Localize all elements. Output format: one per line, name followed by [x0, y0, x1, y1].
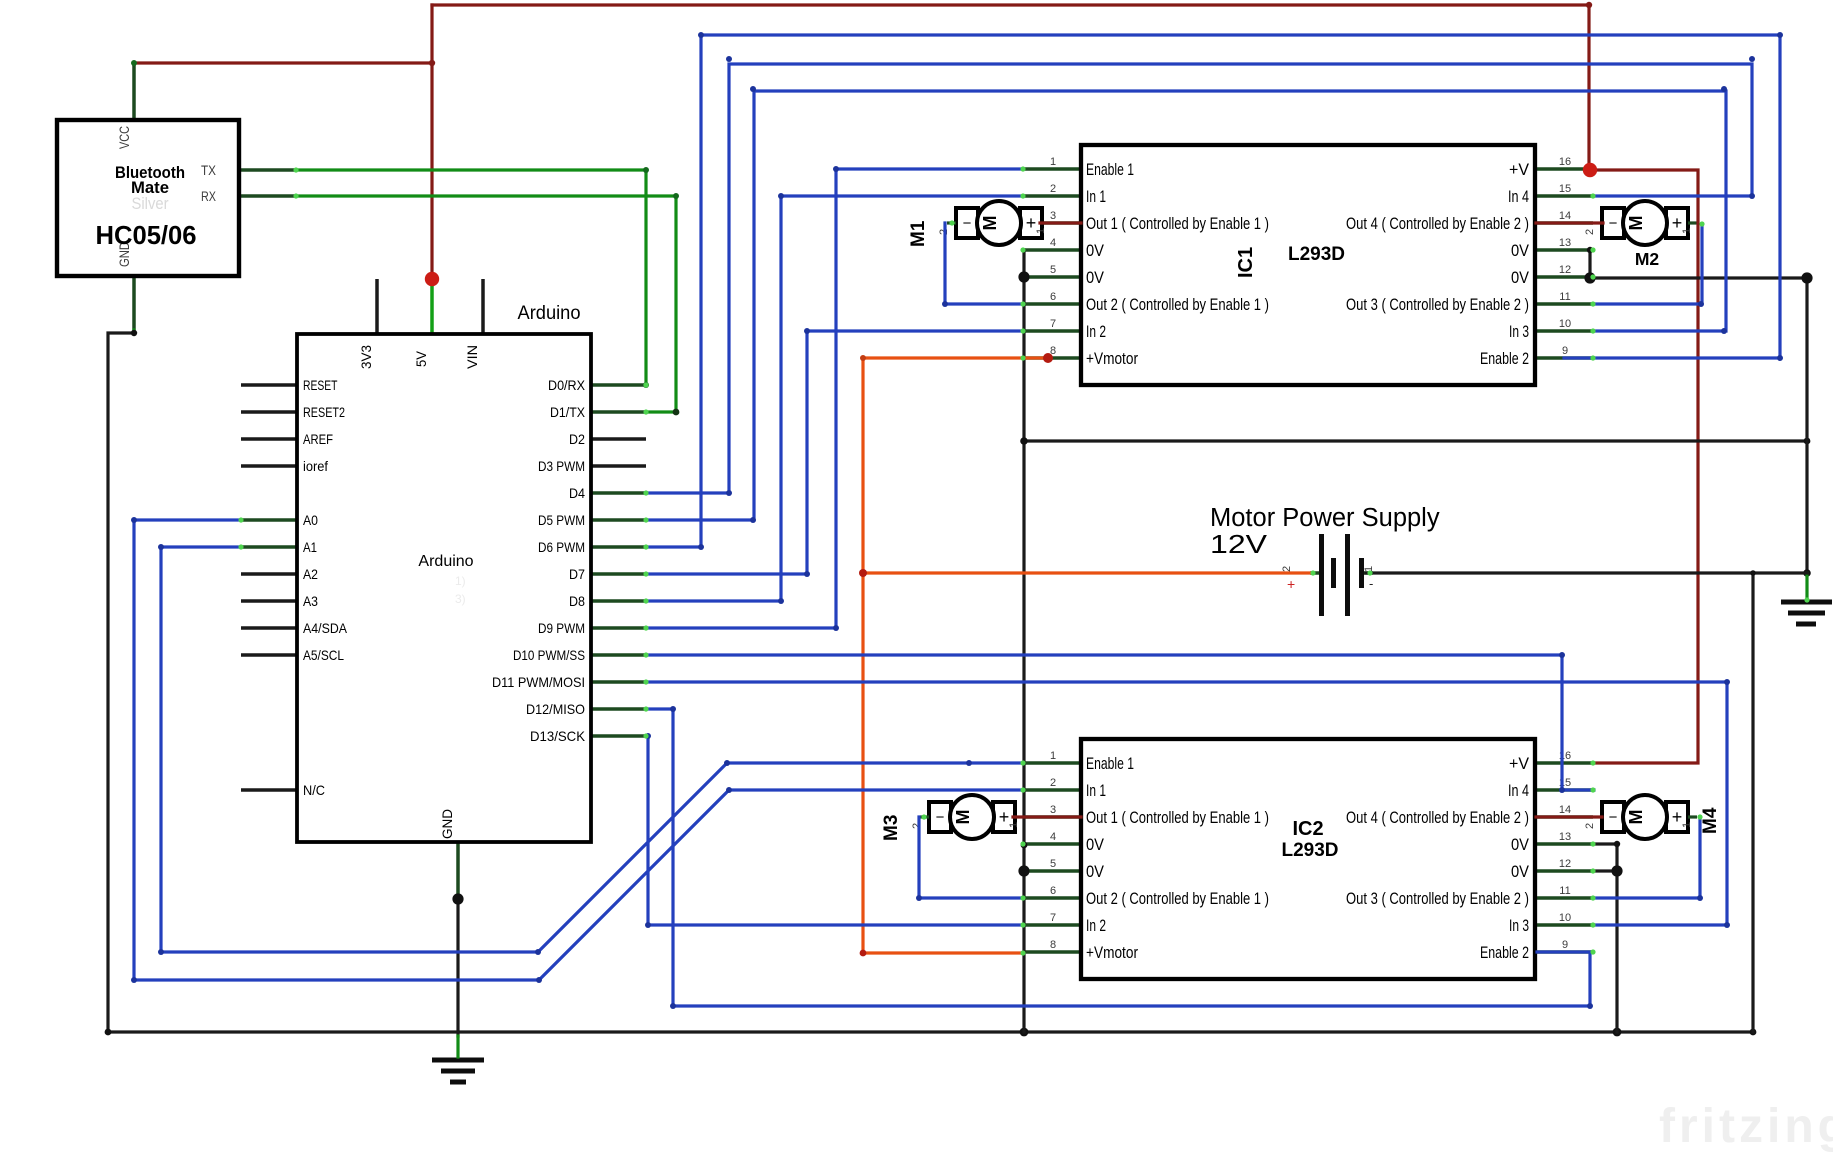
junction blue wire bend (1562,790): [1559, 787, 1565, 793]
svg-text:A3: A3: [303, 594, 318, 609]
node pin connection point (1370,573): [1367, 570, 1372, 575]
svg-text:D13/SCK: D13/SCK: [530, 729, 586, 744]
svg-text:15: 15: [1559, 183, 1571, 195]
junction blue wire bend (1701,304): [1698, 301, 1704, 307]
junction blue wire bend (807,574): [804, 571, 810, 577]
svg-text:M: M: [1626, 216, 1646, 231]
IC1 pin stub 1: [1023, 167, 1081, 171]
svg-text:A2: A2: [303, 567, 318, 582]
Arduino body: [297, 334, 591, 842]
svg-text:0V: 0V: [1511, 862, 1530, 881]
junction blue wire bend (1752,59): [1749, 56, 1755, 62]
node pin connection point (1023,763): [1020, 760, 1025, 765]
svg-text:In 4: In 4: [1508, 781, 1529, 800]
svg-text:In 2: In 2: [1086, 916, 1106, 935]
wire D11 to IC2 In3: [646, 682, 1727, 925]
wire +12V supply: branch to battery plus: [863, 571, 1311, 574]
wire Arduino GND stem: [456, 896, 459, 899]
battery plate long right: [1345, 534, 1350, 616]
junction blue wire bend (727,763): [724, 760, 730, 766]
svg-text:D4: D4: [569, 486, 585, 501]
Arduino pin stub RESET: [241, 383, 297, 387]
node pin connection point (646,547): [643, 544, 648, 549]
junction blue wire bend (781,196): [778, 193, 784, 199]
IC2 pin stub 7: [1023, 923, 1081, 927]
svg-text:+: +: [1287, 576, 1295, 592]
wire D9 to IC1 Enable1: [646, 169, 1023, 628]
junction blue wire bend (781,601): [778, 598, 784, 604]
node pin connection point (1593,196): [1590, 193, 1595, 198]
node pin connection point (646,574): [643, 571, 648, 576]
svg-text:D2: D2: [569, 432, 585, 447]
node pin connection point (1593,250): [1590, 247, 1595, 252]
svg-text:+Vmotor: +Vmotor: [1086, 943, 1138, 962]
svg-text:Out 3 ( Controlled by Enable 2: Out 3 ( Controlled by Enable 2 ): [1346, 295, 1529, 314]
node pin connection point (1593,763): [1590, 760, 1595, 765]
node pin connection point (296,170): [293, 167, 298, 172]
svg-text:−: −: [1609, 215, 1618, 232]
svg-text:10: 10: [1559, 318, 1571, 330]
IC2 pin stub 16: [1535, 761, 1593, 765]
svg-text:In 3: In 3: [1509, 916, 1529, 935]
wire BT RX to Arduino D1/TX (green): [296, 196, 676, 412]
wire bottom ground bus (black): [108, 1030, 1753, 1033]
IC1 body: [1081, 145, 1535, 385]
svg-text:−: −: [1609, 809, 1618, 826]
node pin connection point (1593,331): [1590, 328, 1595, 333]
svg-text:In 1: In 1: [1086, 781, 1106, 800]
svg-text:ioref: ioref: [303, 459, 328, 474]
BT pin stub GND: [132, 277, 136, 332]
svg-text:Out 2 ( Controlled by Enable 1: Out 2 ( Controlled by Enable 1 ): [1086, 889, 1269, 908]
wire battery minus to ground (black): [1366, 571, 1807, 574]
svg-text:3): 3): [455, 592, 466, 606]
svg-text:9: 9: [1562, 345, 1568, 357]
svg-text:Arduino: Arduino: [418, 553, 473, 570]
motor M1: [908, 201, 1047, 247]
node pin connection point (646,709): [643, 706, 648, 711]
IC1 pin stub 14: [1535, 221, 1593, 225]
IC1 pin stub 7: [1023, 329, 1081, 333]
Arduino pin stub D6 PWM: [591, 545, 646, 549]
junction 5V/BT-VCC: [429, 60, 435, 66]
svg-text:+Vmotor: +Vmotor: [1086, 349, 1138, 368]
svg-text:In 2: In 2: [1086, 322, 1106, 341]
junction blue wire bend (753,520): [750, 517, 756, 523]
IC1 L293D motor driver: [1023, 145, 1593, 385]
svg-text:IC1: IC1: [1235, 247, 1257, 278]
svg-text:6: 6: [1050, 291, 1056, 303]
Arduino pin stub A1: [241, 545, 297, 549]
node pin connection point (952,223): [949, 220, 954, 225]
wire 5V net: BT VCC to 5V riser: [134, 61, 432, 64]
svg-text:Motor Power Supply: Motor Power Supply: [1210, 504, 1440, 532]
svg-text:3: 3: [1050, 804, 1056, 816]
svg-text:12: 12: [1559, 264, 1571, 276]
node pin connection point (646,736): [643, 733, 648, 738]
svg-text:M: M: [980, 216, 1000, 231]
node pin connection point (1023,196): [1020, 193, 1025, 198]
BT pin stub RX: [241, 194, 296, 198]
svg-text:+V: +V: [1509, 754, 1530, 773]
svg-text:VIN: VIN: [465, 345, 480, 369]
svg-text:14: 14: [1559, 210, 1571, 222]
svg-text:D10 PWM/SS: D10 PWM/SS: [513, 648, 585, 663]
svg-text:-: -: [1369, 576, 1373, 591]
wire IC2 Out1 to M3 plus (dark red): [1013, 815, 1081, 818]
earth ground symbol under Arduino: [432, 1060, 484, 1082]
node pin connection point (1023,250): [1020, 247, 1025, 252]
svg-text:4: 4: [1050, 237, 1056, 249]
svg-text:AREF: AREF: [303, 432, 333, 447]
junction blue wire bend (538,952): [535, 949, 541, 955]
IC2 pin stub 4: [1023, 842, 1081, 846]
IC2 pin stub 15: [1535, 788, 1593, 792]
wire 5V net: top rail across page to IC1 +V drop: [432, 5, 1589, 170]
wire right earth stub (green): [1805, 573, 1808, 600]
svg-text:11: 11: [1559, 291, 1570, 303]
junction blue wire bend (836,628): [833, 625, 839, 631]
svg-text:Enable 1: Enable 1: [1086, 754, 1134, 773]
junction blue wire bend (673,1006): [670, 1003, 676, 1009]
svg-text:9: 9: [1562, 939, 1568, 951]
junction blue wire bend (1590,1006): [1587, 1003, 1593, 1009]
IC1 pin stub 3: [1023, 221, 1081, 225]
Arduino top pin stub 3V3: [375, 279, 379, 334]
svg-text:5V: 5V: [414, 350, 429, 367]
battery plate short left: [1331, 558, 1336, 588]
svg-text:2: 2: [1281, 566, 1293, 572]
svg-text:N/C: N/C: [303, 783, 325, 798]
svg-text:Enable 1: Enable 1: [1086, 160, 1134, 179]
Arduino pin stub D7: [591, 572, 646, 576]
junction blue wire bend (729,790): [726, 787, 732, 793]
svg-text:fritzing: fritzing: [1659, 1100, 1833, 1153]
node pin connection point (646,493): [643, 490, 648, 495]
svg-text:13: 13: [1559, 237, 1571, 249]
junction blue wire bend (807,331): [804, 328, 810, 334]
wire BT TX to Arduino D0/RX (green): [296, 170, 646, 385]
svg-text:RESET: RESET: [303, 378, 338, 393]
node pin connection point (1593,952): [1590, 949, 1595, 954]
svg-text:L293D: L293D: [1288, 244, 1345, 265]
junction blue wire bend (1724,331): [1721, 328, 1727, 334]
svg-text:In 3: In 3: [1509, 322, 1529, 341]
svg-text:16: 16: [1559, 156, 1571, 168]
node pin connection point (646,412): [643, 409, 648, 414]
Arduino bottom pin stub GND: [456, 842, 460, 897]
node pin connection point (924,817): [921, 814, 926, 819]
node pin connection point (646,682): [643, 679, 648, 684]
IC2 pin stub 2: [1023, 788, 1081, 792]
Arduino pin stub A2: [241, 572, 297, 576]
wire A0 to IC2 In1: [134, 520, 1023, 980]
node pin connection point (296,196): [293, 193, 298, 198]
svg-text:0V: 0V: [1086, 835, 1105, 854]
junction blue wire bend (836,169): [833, 166, 839, 172]
junction blue wire bend (1727,925): [1724, 922, 1730, 928]
IC1 pin stub 10: [1535, 329, 1593, 333]
svg-text:IC2: IC2: [1292, 818, 1323, 840]
wire D10 to IC2 In4: [646, 655, 1594, 790]
junction blue wire bend (729,493): [726, 490, 732, 496]
junction blue wire bend (539,980): [536, 977, 542, 983]
svg-text:Out 2 ( Controlled by Enable 1: Out 2 ( Controlled by Enable 1 ): [1086, 295, 1269, 314]
svg-text:HC05/06: HC05/06: [96, 220, 197, 250]
svg-text:4: 4: [1050, 831, 1056, 843]
Arduino pin stub A3: [241, 599, 297, 603]
svg-text:D12/MISO: D12/MISO: [526, 702, 585, 717]
svg-text:+V: +V: [1509, 160, 1530, 179]
svg-text:1: 1: [1050, 156, 1056, 168]
node pin connection point (1023,953): [1020, 950, 1025, 955]
wire D5 to IC1 In3: [646, 91, 1726, 520]
svg-text:M4: M4: [1700, 807, 1721, 834]
svg-text:Out 3 ( Controlled by Enable 2: Out 3 ( Controlled by Enable 2 ): [1346, 889, 1529, 908]
junction blue wire bend (1780,358): [1777, 355, 1783, 361]
svg-text:14: 14: [1559, 804, 1571, 816]
wire 5V net: riser above Arduino 5V pin: [430, 5, 433, 279]
svg-text:A0: A0: [303, 513, 318, 528]
svg-text:D1/TX: D1/TX: [550, 405, 585, 420]
svg-text:D11 PWM/MOSI: D11 PWM/MOSI: [492, 675, 585, 690]
node pin connection point (1593,844): [1590, 841, 1595, 846]
svg-text:In 4: In 4: [1508, 187, 1529, 206]
wire M1 minus to IC1 Out2: [945, 223, 1023, 304]
svg-text:10: 10: [1559, 912, 1571, 924]
svg-text:1: 1: [1008, 822, 1020, 828]
node pin connection point (1593,790): [1590, 787, 1595, 792]
svg-text:11: 11: [1559, 885, 1570, 897]
battery terminal stubs: [1310, 571, 1319, 575]
wire IC2 right 0V ground (black): [1593, 844, 1617, 1032]
node pin connection point (1313,573): [1310, 570, 1315, 575]
wire IC1 Out1 to M1 plus (dark red): [1040, 221, 1081, 224]
junction blue wire bend (701,35): [698, 32, 704, 38]
svg-text:D0/RX: D0/RX: [548, 378, 585, 393]
IC1 pin stub 16: [1535, 167, 1593, 171]
node pin connection point (1700,817): [1697, 814, 1702, 819]
svg-text:0V: 0V: [1511, 835, 1530, 854]
svg-text:1: 1: [1681, 228, 1693, 234]
Arduino pin stub D8: [591, 599, 646, 603]
junction blue wire bend (1724,89): [1721, 86, 1727, 92]
junction top-right corner: [1586, 2, 1592, 8]
IC1 pin stub 6: [1023, 302, 1081, 306]
node pin connection point (1593,277): [1590, 274, 1595, 279]
svg-text:7: 7: [1050, 318, 1056, 330]
IC1 pin stub 15: [1535, 194, 1593, 198]
svg-text:−: −: [963, 215, 972, 232]
Arduino board: [241, 279, 646, 897]
BT body: [57, 120, 239, 276]
svg-text:0V: 0V: [1511, 268, 1530, 287]
IC1 pin stub 13: [1535, 248, 1593, 252]
wire IC1 right 0V ground (black): [1590, 250, 1593, 278]
IC2 pin stub 8: [1023, 950, 1081, 954]
svg-text:A4/SDA: A4/SDA: [303, 621, 348, 636]
Arduino pin stub D5 PWM: [591, 518, 646, 522]
Arduino pin stub D0/RX: [591, 383, 646, 387]
svg-text:7: 7: [1050, 912, 1056, 924]
node pin connection point (1023,844): [1020, 841, 1025, 846]
node pin connection point (1593,898): [1590, 895, 1595, 900]
Arduino pin stub D9 PWM: [591, 626, 646, 630]
svg-text:M: M: [1626, 810, 1646, 825]
svg-text:1: 1: [1681, 822, 1693, 828]
svg-text:12: 12: [1559, 858, 1571, 870]
junction blue wire bend (134,980): [131, 977, 137, 983]
svg-text:GND: GND: [440, 809, 455, 839]
svg-text:TX: TX: [201, 163, 216, 178]
junction blue wire bend (1780,35): [1777, 32, 1783, 38]
wire D7 to IC1 In2: [646, 331, 1023, 574]
svg-text:12V: 12V: [1210, 531, 1267, 559]
wire M2 plus to IC1 Out3: [1594, 224, 1702, 304]
junction blue wire bend (1562,655): [1559, 652, 1565, 658]
svg-text:1): 1): [455, 574, 466, 588]
IC2 pin stub 3: [1023, 815, 1081, 819]
IC2 pin stub 5: [1023, 869, 1081, 873]
svg-text:2: 2: [1050, 183, 1056, 195]
node pin connection point (1023,331): [1020, 328, 1025, 333]
wire D8 to IC1 In1: [646, 196, 1023, 601]
svg-text:6: 6: [1050, 885, 1056, 897]
Arduino pin stub A5/SCL: [241, 653, 297, 657]
motor M3: [881, 795, 1020, 841]
battery plate short right: [1359, 558, 1364, 588]
node pin connection point (646,628): [643, 625, 648, 630]
svg-text:M: M: [953, 810, 973, 825]
svg-text:M2: M2: [1635, 249, 1660, 269]
wire D4 to IC1 In4: [646, 64, 1752, 493]
svg-text:D7: D7: [569, 567, 585, 582]
IC2 pin stub 10: [1535, 923, 1593, 927]
svg-text:A5/SCL: A5/SCL: [303, 648, 344, 663]
node pin connection point (1023,304): [1020, 301, 1025, 306]
wire M3 minus to IC2 Out2: [919, 817, 1023, 898]
Bluetooth Mate HC05/06 module: [57, 64, 296, 332]
junction blue wire bend (1752,196): [1749, 193, 1755, 199]
wire M4 plus to IC2 Out3: [1594, 817, 1700, 898]
svg-text:M1: M1: [908, 220, 929, 247]
wire +12V supply: IC1 +Vmotor down to IC2 +Vmotor: [863, 358, 1050, 953]
wire BT VCC riser (green): [131, 60, 137, 66]
svg-text:8: 8: [1050, 939, 1056, 951]
svg-text:RX: RX: [201, 189, 216, 204]
svg-text:Enable 2: Enable 2: [1480, 943, 1529, 962]
node pin connection point (646,601): [643, 598, 648, 603]
earth ground symbol right: [1781, 602, 1832, 624]
node pin connection point (1593,304): [1590, 301, 1595, 306]
svg-text:3V3: 3V3: [359, 345, 374, 369]
node pin connection point (1702,224): [1699, 221, 1704, 226]
IC2 pin stub 13: [1535, 842, 1593, 846]
svg-text:D5 PWM: D5 PWM: [538, 513, 585, 528]
node pin connection point (1023,925): [1020, 922, 1025, 927]
Arduino pin stub D13/SCK: [591, 734, 646, 738]
svg-text:RESET2: RESET2: [303, 405, 345, 420]
wire BT GND drop (green): [132, 330, 135, 333]
svg-text:D8: D8: [569, 594, 585, 609]
battery plate long left: [1319, 534, 1324, 616]
svg-text:M3: M3: [881, 815, 902, 841]
node pin connection point (1023,169): [1020, 166, 1025, 171]
IC1 pin stub 4: [1023, 248, 1081, 252]
motor M4: [1584, 795, 1721, 839]
svg-text:Out 1 ( Controlled by Enable 1: Out 1 ( Controlled by Enable 1 ): [1086, 214, 1269, 233]
svg-text:3: 3: [1050, 210, 1056, 222]
node pin connection point (1023,898): [1020, 895, 1025, 900]
Arduino pin stub D10 PWM/SS: [591, 653, 646, 657]
junction blue wire bend (1727,682): [1724, 679, 1730, 685]
svg-text:2: 2: [911, 823, 923, 829]
svg-text:Out 1 ( Controlled by Enable 1: Out 1 ( Controlled by Enable 1 ): [1086, 808, 1269, 827]
node pin connection point (241,520): [238, 517, 243, 522]
wire BT GND to left ground rail (black): [108, 333, 134, 1032]
junction blue wire bend (134,520): [131, 517, 137, 523]
svg-text:2: 2: [1584, 229, 1596, 235]
Arduino top pin stub 5V: [430, 280, 434, 334]
svg-text:0V: 0V: [1086, 862, 1105, 881]
Arduino pin stub D12/MISO: [591, 707, 646, 711]
wire D6 to IC1 Enable2: [646, 35, 1780, 547]
junction blue wire bend (945,304): [942, 301, 948, 307]
svg-text:0V: 0V: [1086, 268, 1105, 287]
IC2 pin stub 9: [1535, 950, 1593, 954]
node pin connection point (1023,358): [1020, 355, 1025, 360]
motor M2: [1584, 201, 1697, 269]
svg-text:Enable 2: Enable 2: [1480, 349, 1529, 368]
svg-text:In 1: In 1: [1086, 187, 1106, 206]
Arduino pin stub ioref: [241, 464, 297, 468]
Arduino pin stub RESET2: [241, 410, 297, 414]
IC2 pin stub 6: [1023, 896, 1081, 900]
Arduino pin stub D4: [591, 491, 646, 495]
svg-text:5: 5: [1050, 264, 1056, 276]
svg-text:D9 PWM: D9 PWM: [538, 621, 585, 636]
IC1 pin stub 8: [1023, 356, 1081, 360]
svg-text:2: 2: [1050, 777, 1056, 789]
IC2 pin stub 14: [1535, 815, 1593, 819]
BT pin stub VCC: [132, 64, 136, 118]
node pin connection point (646,385): [643, 382, 648, 387]
Arduino pin stub D3 PWM: [591, 464, 646, 468]
junction blue wire bend (648,736): [645, 733, 651, 739]
wire IC1 Out4 to M2 minus (dark red): [1536, 221, 1603, 224]
svg-text:Silver: Silver: [132, 194, 169, 213]
svg-text:D3 PWM: D3 PWM: [538, 459, 585, 474]
Arduino pin stub D11 PWM/MOSI: [591, 680, 646, 684]
BT pin stub TX: [241, 168, 296, 172]
node pin connection point (646,655): [643, 652, 648, 657]
node pin connection point (1593,358): [1590, 355, 1595, 360]
IC2 pin stub 11: [1535, 896, 1593, 900]
junction blue wire bend (1700,898): [1697, 895, 1703, 901]
junction blue wire bend (729,59): [726, 56, 732, 62]
junction blue wire bend (161,952): [158, 949, 164, 955]
svg-text:−: −: [936, 809, 945, 826]
IC2 L293D motor driver: [1023, 739, 1593, 979]
junction blue wire bend (701,547): [698, 544, 704, 550]
junction blue wire bend (919,898): [916, 895, 922, 901]
Arduino pin stub A4/SDA: [241, 626, 297, 630]
svg-text:L293D: L293D: [1281, 840, 1338, 861]
Arduino pin stub D2: [591, 437, 646, 441]
IC2 pin stub 12: [1535, 869, 1593, 873]
IC2 body: [1081, 739, 1535, 979]
Arduino top pin stub VIN: [481, 279, 485, 334]
